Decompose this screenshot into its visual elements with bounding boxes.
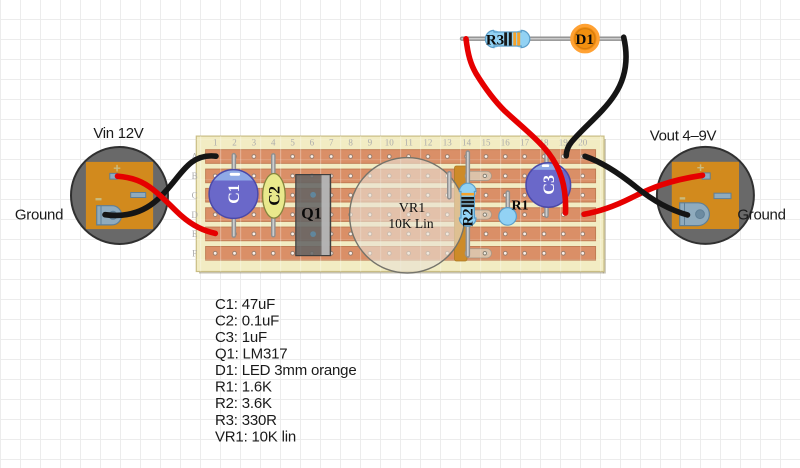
svg-text:10K Lin: 10K Lin — [388, 216, 434, 231]
svg-text:E: E — [192, 229, 198, 239]
svg-text:F: F — [192, 249, 197, 259]
svg-text:R2: R2 — [461, 208, 477, 226]
svg-text:D1: D1 — [576, 32, 594, 48]
svg-text:C: C — [192, 190, 198, 200]
svg-text:C3: 1uF: C3: 1uF — [215, 329, 267, 346]
svg-text:Ground: Ground — [737, 206, 785, 223]
svg-text:C2: 0.1uF: C2: 0.1uF — [215, 312, 279, 329]
svg-text:C2: C2 — [267, 186, 284, 206]
svg-text:R1: R1 — [511, 198, 528, 213]
svg-text:D1: LED 3mm orange: D1: LED 3mm orange — [215, 362, 356, 379]
svg-text:R1: 1.6K: R1: 1.6K — [215, 379, 272, 396]
svg-text:Ground: Ground — [15, 207, 63, 224]
svg-text:Vin 12V: Vin 12V — [93, 125, 143, 142]
svg-text:VR1: 10K lin: VR1: 10K lin — [215, 428, 296, 445]
svg-text:VR1: VR1 — [399, 201, 425, 216]
svg-text:R3: R3 — [486, 32, 504, 48]
svg-text:Vout 4–9V: Vout 4–9V — [650, 128, 717, 145]
svg-text:C1: C1 — [226, 184, 243, 204]
svg-text:C3: C3 — [541, 175, 558, 195]
svg-text:R2: 3.6K: R2: 3.6K — [215, 395, 272, 412]
svg-text:Q1: Q1 — [301, 205, 321, 222]
svg-text:C1: 47uF: C1: 47uF — [215, 296, 275, 313]
svg-text:R3: 330R: R3: 330R — [215, 412, 277, 429]
svg-text:D: D — [191, 210, 198, 220]
svg-text:Q1: LM317: Q1: LM317 — [215, 346, 287, 363]
